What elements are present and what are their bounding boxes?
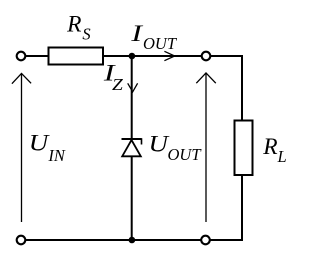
terminal circle input top — [17, 52, 26, 61]
arrow UIN (left, pointing up) — [12, 73, 31, 222]
open circle bottom rail output — [201, 236, 210, 245]
svg-text:UOUT: UOUT — [149, 132, 203, 164]
zener diode cathode hook — [141, 138, 143, 144]
terminal circle input bottom — [17, 236, 26, 245]
wire: RL bottom, bottom rail to left terminal — [25, 175, 242, 240]
svg-text:RL: RL — [262, 134, 287, 166]
svg-text:IZ: IZ — [103, 60, 124, 94]
open circle top rail output — [202, 52, 211, 61]
arrow IOUT (on top wire, pointing right) — [164, 51, 174, 60]
wire: middle branch bottom (zener anode to bottom rail) — [131, 157, 133, 241]
arrow IZ (on middle branch, pointing down) — [128, 83, 138, 92]
wire top: input terminal to resistor RS — [25, 55, 48, 57]
junction dot top node — [129, 53, 136, 60]
arrow across RL (right, pointing up) — [196, 73, 216, 222]
zener diode cathode bar — [122, 138, 142, 140]
svg-text:UIN: UIN — [29, 131, 66, 165]
zener diode triangle (anode, pointing up) — [122, 140, 141, 156]
resistor RL — [235, 121, 253, 176]
svg-text:RS: RS — [66, 11, 91, 43]
wire: middle branch top (node to zener cathode) — [131, 56, 133, 139]
junction dot bottom node — [129, 237, 136, 244]
svg-text:IOUT: IOUT — [130, 21, 178, 53]
wire top: RS to right corner, down to RL — [104, 56, 242, 120]
resistor RS — [49, 48, 104, 65]
